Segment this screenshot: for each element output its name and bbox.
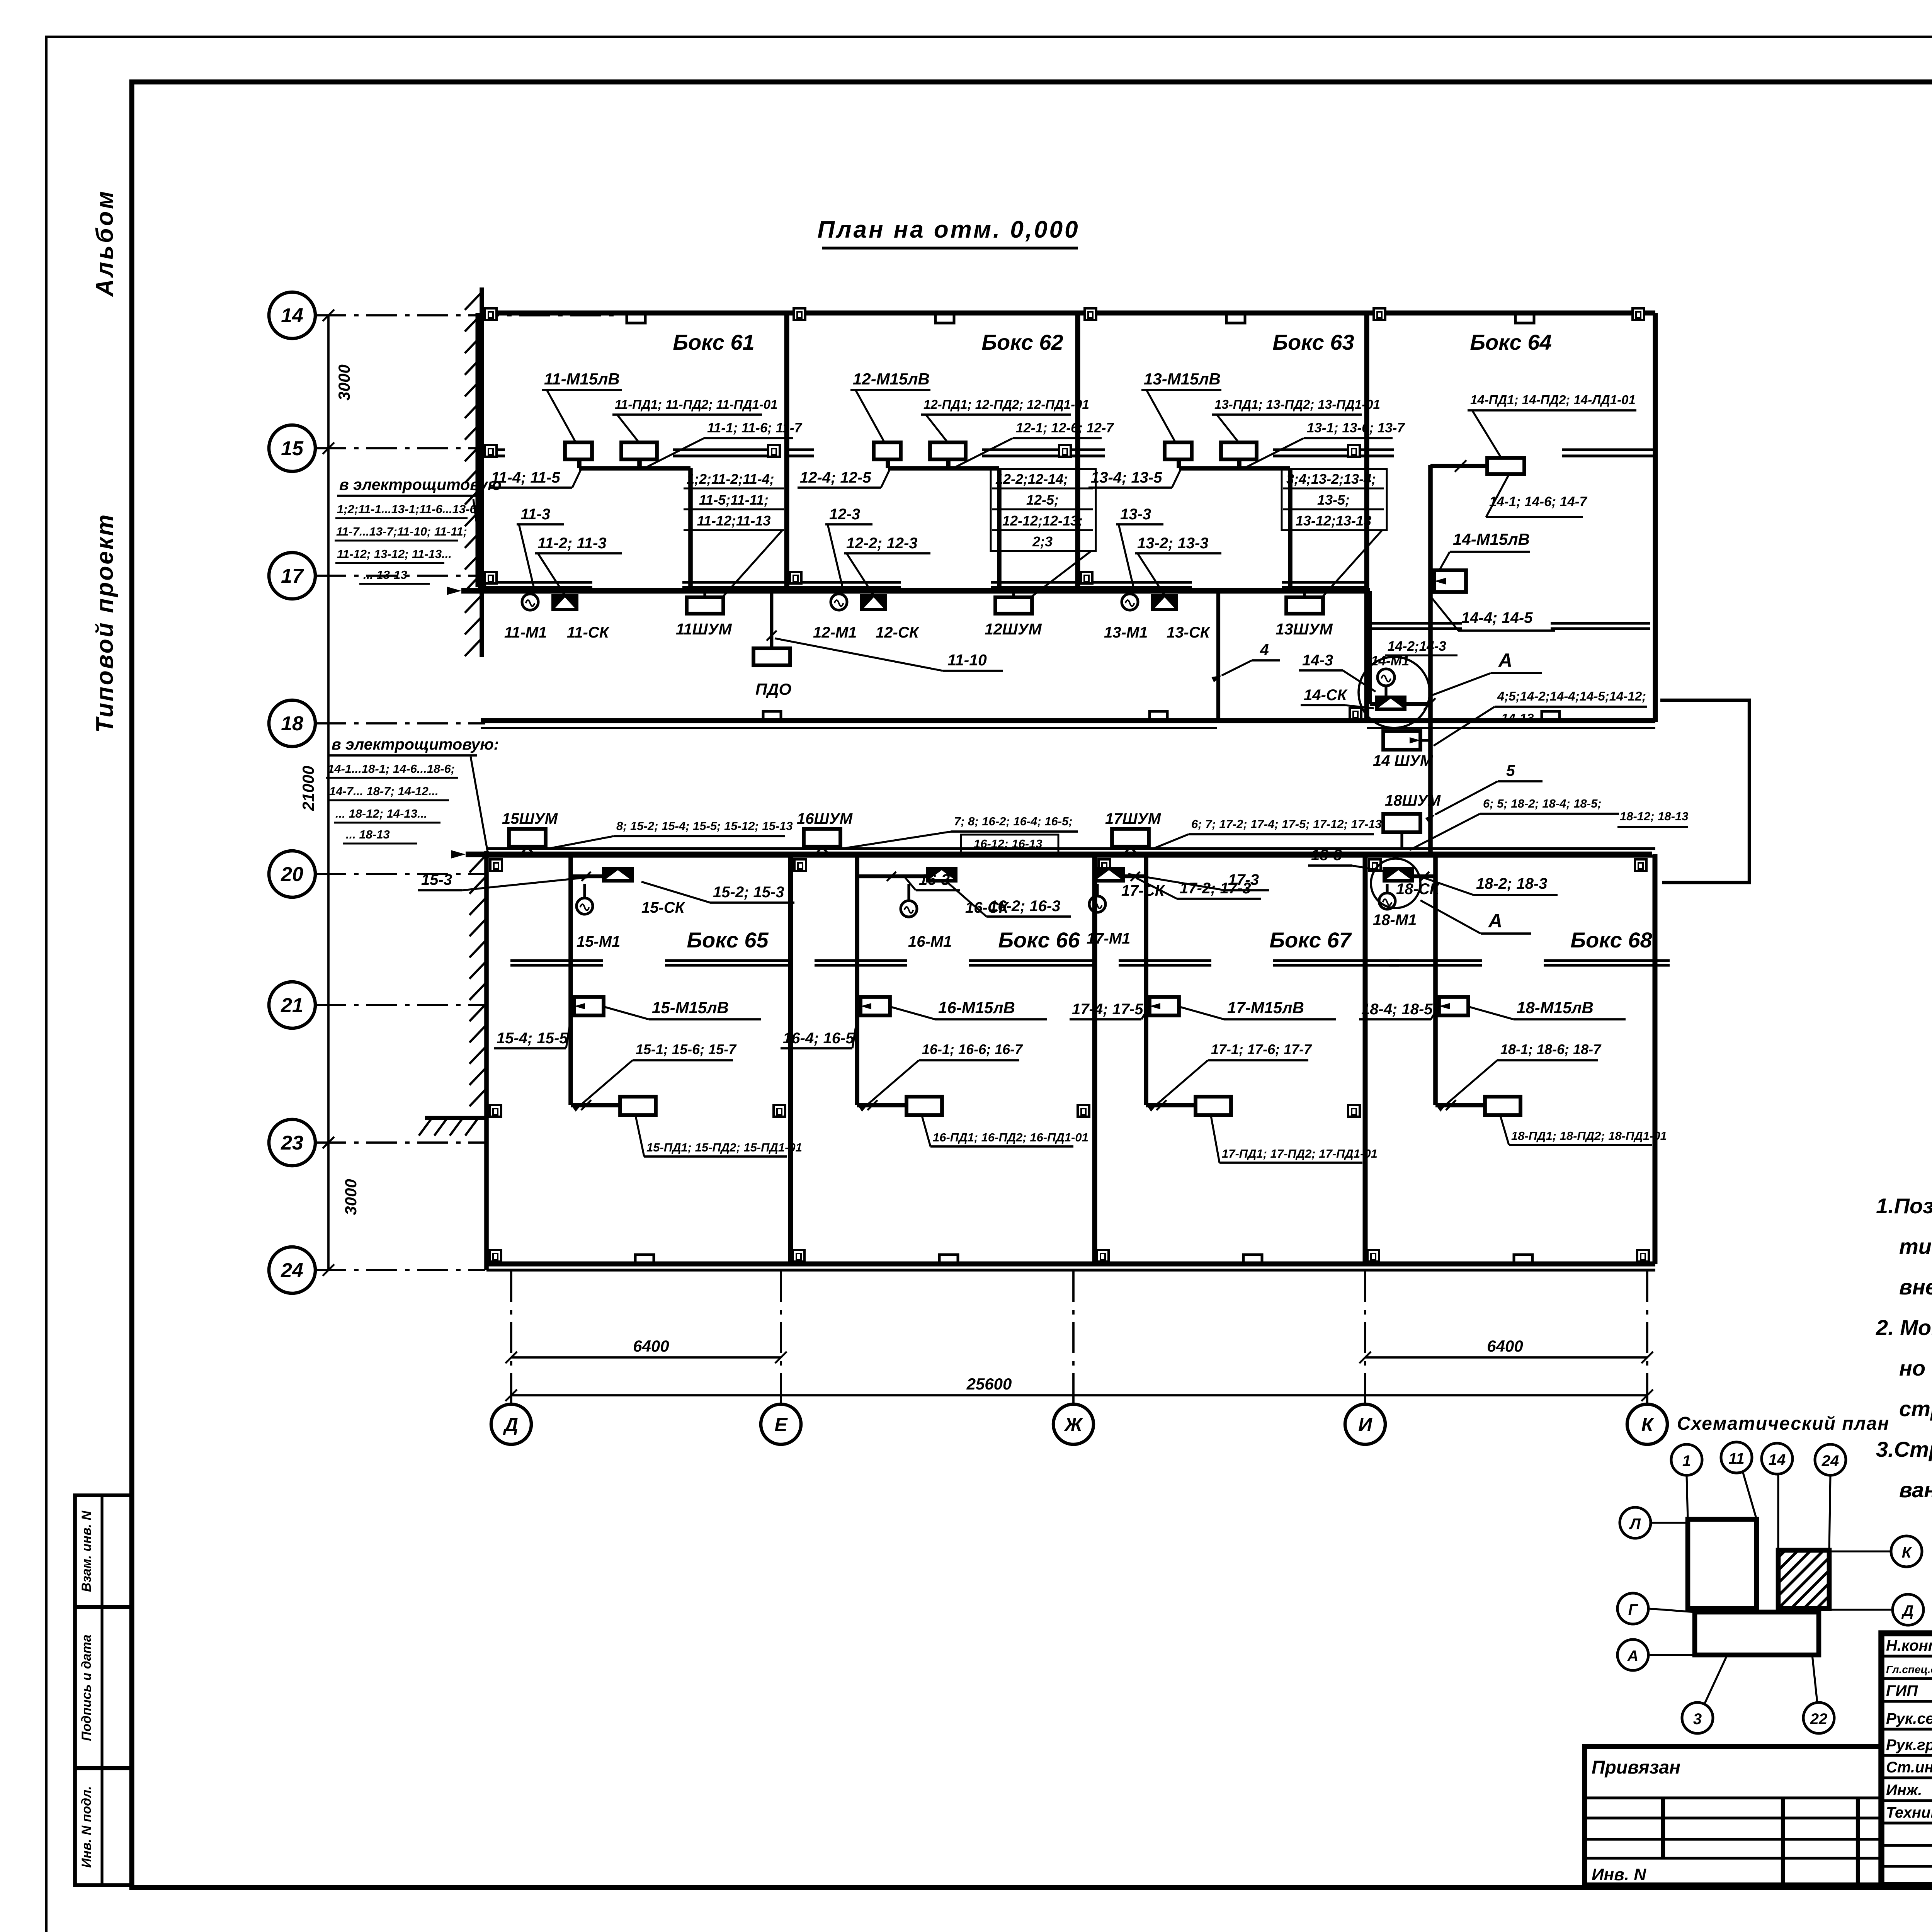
title block outer bbox=[1881, 1633, 1932, 1885]
axis 23 line bbox=[315, 1141, 485, 1144]
cable lower horizontal box 18 bbox=[1435, 1103, 1485, 1107]
schematic hatched block bbox=[1778, 1550, 1829, 1609]
cable 18 riser bbox=[1414, 874, 1435, 878]
cable lower horizontal box 16 bbox=[857, 1103, 906, 1107]
axis 20 line bbox=[315, 873, 485, 875]
svg-text:11-5;11-11;: 11-5;11-11; bbox=[699, 492, 769, 508]
noise sensor 17ШУМ rect bbox=[1112, 829, 1149, 847]
schematic axis circle Г bbox=[1617, 1593, 1648, 1624]
svg-text:12-М15лВ: 12-М15лВ bbox=[853, 370, 930, 388]
svg-text:13-5;: 13-5; bbox=[1317, 492, 1350, 508]
svg-text:12-5;: 12-5; bbox=[1026, 492, 1059, 508]
wall bump notches top wall bbox=[627, 313, 645, 323]
svg-text:17-М15лВ: 17-М15лВ bbox=[1227, 998, 1304, 1017]
axis 24 circle bbox=[269, 1247, 315, 1293]
axis 23 circle bbox=[269, 1119, 315, 1166]
svg-text:17-2; 17-3: 17-2; 17-3 bbox=[1180, 880, 1251, 897]
cable loop right of box64/68 bbox=[1660, 700, 1749, 883]
svg-text:Д: Д bbox=[503, 1414, 518, 1435]
damper 12-М15лВ rect bbox=[874, 442, 901, 459]
svg-text:22: 22 bbox=[1810, 1711, 1828, 1728]
svg-text:4;5;14-2;14-4;14-5;14-12;: 4;5;14-2;14-4;14-5;14-12; bbox=[1497, 689, 1646, 703]
svg-text:14-М15лВ: 14-М15лВ bbox=[1453, 530, 1530, 548]
schematic axis circle К (right) bbox=[1891, 1536, 1922, 1567]
svg-text:11-12;11-13: 11-12;11-13 bbox=[697, 513, 771, 529]
svg-text:Н.контр.: Н.контр. bbox=[1886, 1637, 1932, 1654]
svg-text:15: 15 bbox=[281, 437, 304, 460]
svg-text:23: 23 bbox=[281, 1132, 303, 1154]
svg-text:Бокс 63: Бокс 63 bbox=[1272, 330, 1354, 354]
switch 11-СК bbox=[551, 594, 578, 611]
cable from trunk to 14-СК bbox=[1368, 591, 1372, 704]
switch 14-СК bbox=[1375, 696, 1406, 711]
box64 side walls extended to axis 18 bbox=[1364, 587, 1369, 722]
wall x=4284 (upper row) bbox=[1653, 313, 1658, 587]
svg-text:6400: 6400 bbox=[1487, 1337, 1523, 1355]
svg-text:А: А bbox=[1498, 650, 1512, 671]
svg-text:К: К bbox=[1902, 1544, 1912, 1561]
svg-text:13ШУМ: 13ШУМ bbox=[1276, 620, 1333, 638]
svg-text:15-СК: 15-СК bbox=[641, 899, 685, 916]
svg-text:2;3: 2;3 bbox=[1032, 534, 1053, 549]
hatch wall foot piece bbox=[425, 1116, 488, 1120]
svg-text:1: 1 bbox=[1682, 1452, 1691, 1469]
svg-text:И: И bbox=[1358, 1414, 1372, 1435]
svg-text:18-12; 18-13: 18-12; 18-13 bbox=[1620, 810, 1689, 823]
svg-text:Инв. N подл.: Инв. N подл. bbox=[79, 1786, 94, 1868]
svg-text:11-М1: 11-М1 bbox=[504, 624, 547, 641]
svg-text:... 13-13: ... 13-13 bbox=[363, 568, 407, 582]
svg-text:14-СК: 14-СК bbox=[1304, 687, 1348, 704]
svg-text:16-4; 16-5: 16-4; 16-5 bbox=[783, 1030, 854, 1047]
schematic axis circle 11 bbox=[1721, 1442, 1752, 1473]
wall bump notches axis-18 wall bbox=[763, 711, 781, 721]
svg-text:Бокс 61: Бокс 61 bbox=[673, 330, 754, 354]
cable 17 riser bbox=[1125, 874, 1146, 878]
noise sensor 15ШУМ rect bbox=[509, 829, 546, 847]
cable in box 12 bbox=[886, 459, 890, 468]
svg-text:Ж: Ж bbox=[1063, 1414, 1083, 1435]
svg-text:13-12;13-13: 13-12;13-13 bbox=[1296, 513, 1371, 529]
svg-text:Подпись и дата: Подпись и дата bbox=[79, 1634, 94, 1741]
noise sensor 14ШУМ rect bbox=[1383, 731, 1420, 750]
svg-text:11-12; 13-12; 11-13...: 11-12; 13-12; 11-13... bbox=[337, 547, 452, 561]
detail circle around 18 unit bbox=[1371, 859, 1420, 908]
axis 24 line bbox=[315, 1269, 485, 1271]
svg-text:4: 4 bbox=[1260, 641, 1269, 658]
left margin stamp table bbox=[75, 1495, 132, 1885]
svg-text:14-1; 14-6; 14-7: 14-1; 14-6; 14-7 bbox=[1489, 494, 1587, 509]
damper 14-ПД rect bbox=[1487, 458, 1524, 474]
axis И circle bbox=[1345, 1404, 1385, 1444]
svg-text:К: К bbox=[1641, 1414, 1655, 1435]
svg-text:Бокс 67: Бокс 67 bbox=[1269, 928, 1352, 952]
axis И vertical line bbox=[1364, 1271, 1366, 1403]
svg-text:14-4; 14-5: 14-4; 14-5 bbox=[1461, 609, 1533, 626]
motor 12-М1 bbox=[831, 594, 847, 610]
axis 18 line bbox=[315, 722, 485, 724]
schematic axis circle 14 bbox=[1762, 1443, 1793, 1474]
svg-text:3.Строительная и технологиче: 3.Строительная и технологическая часть в… bbox=[1876, 1437, 1932, 1461]
svg-text:Рук.сект.: Рук.сект. bbox=[1886, 1710, 1932, 1727]
box64 riser cable bbox=[1428, 465, 1433, 854]
motor 14-М1 bbox=[1378, 669, 1395, 686]
svg-text:6400: 6400 bbox=[633, 1337, 669, 1355]
svg-text:Ст.инж.: Ст.инж. bbox=[1886, 1759, 1932, 1776]
svg-text:18-1; 18-6; 18-7: 18-1; 18-6; 18-7 bbox=[1500, 1041, 1602, 1057]
axis Ж circle bbox=[1053, 1404, 1094, 1444]
svg-text:в электрощитовую:: в электрощитовую: bbox=[332, 735, 499, 753]
axis К circle bbox=[1627, 1404, 1667, 1444]
noise sensor 11ШУМ rect bbox=[687, 597, 723, 614]
svg-text:14-3: 14-3 bbox=[1302, 652, 1333, 669]
svg-text:12ШУМ: 12ШУМ bbox=[985, 620, 1042, 638]
svg-text:А: А bbox=[1488, 910, 1502, 932]
damper 17-М15лВ rect bbox=[1150, 997, 1179, 1015]
svg-text:1;2;11-1...13-1;11-6...13-6;: 1;2;11-1...13-1;11-6...13-6; bbox=[337, 502, 480, 516]
svg-text:Гл.спец.отд.: Гл.спец.отд. bbox=[1886, 1663, 1932, 1675]
axis 18 circle bbox=[269, 700, 315, 747]
wall bump notches bottom wall bbox=[635, 1255, 654, 1264]
svg-text:14-ПД1; 14-ПД2; 14-ЛД1-01: 14-ПД1; 14-ПД2; 14-ЛД1-01 bbox=[1470, 393, 1636, 407]
damper 18-М15лВ rect bbox=[1439, 997, 1468, 1015]
svg-text:А: А bbox=[1627, 1648, 1639, 1665]
svg-text:8; 15-2; 15-4; 15-5; 15-12; 15: 8; 15-2; 15-4; 15-5; 15-12; 15-13 bbox=[616, 819, 793, 833]
switch 17-СК bbox=[1093, 867, 1125, 883]
svg-text:11-2; 11-3: 11-2; 11-3 bbox=[537, 535, 607, 552]
svg-text:7; 8; 16-2; 16-4; 16-5;: 7; 8; 16-2; 16-4; 16-5; bbox=[954, 815, 1073, 828]
bottom dim line 6400 (И-К) bbox=[1365, 1356, 1647, 1359]
svg-text:24: 24 bbox=[281, 1259, 303, 1282]
svg-text:14-2;14-3: 14-2;14-3 bbox=[1388, 639, 1446, 654]
svg-text:3000: 3000 bbox=[342, 1179, 360, 1215]
svg-text:11-СК: 11-СК bbox=[567, 624, 610, 641]
svg-text:... 18-12; 14-13...: ... 18-12; 14-13... bbox=[335, 807, 427, 820]
axis 21 circle bbox=[269, 982, 315, 1028]
damper 13-М15лВ rect bbox=[1165, 442, 1192, 459]
column jamb marks bbox=[485, 308, 497, 320]
svg-text:Бокс 65: Бокс 65 bbox=[687, 928, 769, 952]
svg-text:Д: Д bbox=[1901, 1602, 1914, 1619]
svg-text:15-М15лВ: 15-М15лВ bbox=[652, 998, 729, 1017]
motor 15-М1 bbox=[577, 898, 593, 914]
svg-text:Бокс 66: Бокс 66 bbox=[998, 928, 1080, 952]
bottom wall of lower boxes (axis 24) bbox=[486, 1262, 1655, 1267]
svg-text:18-ПД1; 18-ПД2; 18-ПД1-01: 18-ПД1; 18-ПД2; 18-ПД1-01 bbox=[1511, 1129, 1667, 1143]
top wall of boxes 61-64 (axis 14) bbox=[482, 311, 1655, 316]
axis Ж vertical line bbox=[1072, 1271, 1075, 1403]
svg-text:21000: 21000 bbox=[299, 766, 317, 811]
svg-text:11-М15лВ: 11-М15лВ bbox=[544, 370, 620, 388]
svg-text:15-ПД1; 15-ПД2; 15-ПД1-01: 15-ПД1; 15-ПД2; 15-ПД1-01 bbox=[646, 1141, 802, 1154]
bottom wall of upper boxes (axis 17) bbox=[478, 581, 592, 583]
svg-text:2. Монтаж приборов и средст: 2. Монтаж приборов и средств автоматизац… bbox=[1876, 1315, 1932, 1340]
svg-text:18-М1: 18-М1 bbox=[1373, 912, 1417, 929]
svg-text:14-1...18-1; 14-6...18-6;: 14-1...18-1; 14-6...18-6; bbox=[328, 762, 455, 776]
svg-text:... 18-13: ... 18-13 bbox=[346, 828, 390, 841]
svg-text:15ШУМ: 15ШУМ bbox=[502, 810, 558, 827]
svg-text:12-4; 12-5: 12-4; 12-5 bbox=[800, 469, 871, 486]
svg-text:6; 5; 18-2; 18-4; 18-5;: 6; 5; 18-2; 18-4; 18-5; bbox=[1483, 797, 1602, 810]
svg-text:Инж.: Инж. bbox=[1886, 1782, 1922, 1799]
svg-text:13-4; 13-5: 13-4; 13-5 bbox=[1091, 469, 1162, 486]
title block staff rows bbox=[1881, 1655, 1932, 1657]
svg-text:13-ПД1; 13-ПД2; 13-ПД1-01: 13-ПД1; 13-ПД2; 13-ПД1-01 bbox=[1214, 397, 1380, 412]
svg-text:17: 17 bbox=[281, 565, 304, 587]
wall x=3533 (lower row) bbox=[1363, 856, 1368, 1264]
schematic axis circle А bbox=[1617, 1639, 1648, 1670]
axis-15 partition stubs in upper boxes bbox=[478, 448, 505, 451]
svg-text:1;2;11-2;11-4;: 1;2;11-2;11-4; bbox=[687, 471, 774, 487]
vertical dimension line left bbox=[327, 315, 330, 448]
axis К vertical line bbox=[1646, 1271, 1648, 1403]
axis Д circle bbox=[491, 1404, 531, 1444]
svg-text:17-1; 17-6; 17-7: 17-1; 17-6; 17-7 bbox=[1211, 1041, 1312, 1057]
motor 18-М1 bbox=[1379, 893, 1395, 909]
svg-text:17-ПД1; 17-ПД2; 17-ПД1-01: 17-ПД1; 17-ПД2; 17-ПД1-01 bbox=[1222, 1147, 1378, 1160]
svg-text:13-1; 13-6; 13-7: 13-1; 13-6; 13-7 bbox=[1307, 420, 1405, 435]
svg-text:11-4; 11-5: 11-4; 11-5 bbox=[491, 469, 560, 486]
svg-text:12-ПД1; 12-ПД2; 12-ПД1-01: 12-ПД1; 12-ПД2; 12-ПД1-01 bbox=[923, 397, 1089, 412]
bottom dim line 6400 (Д-Е) bbox=[511, 1356, 781, 1359]
noise sensor 13ШУМ rect bbox=[1286, 597, 1323, 614]
svg-text:12-2; 12-3: 12-2; 12-3 bbox=[846, 535, 918, 552]
svg-text:3: 3 bbox=[1693, 1711, 1702, 1728]
wall x=3537 (upper row) bbox=[1364, 313, 1369, 587]
svg-text:20: 20 bbox=[281, 863, 303, 886]
axis 17 line bbox=[315, 575, 485, 577]
damper 15-М15лВ rect bbox=[574, 997, 604, 1015]
switch 18-СК bbox=[1383, 867, 1414, 883]
svg-text:15-1; 15-6; 15-7: 15-1; 15-6; 15-7 bbox=[636, 1041, 737, 1057]
schematic building block 1 bbox=[1688, 1519, 1757, 1609]
switch 12-СК bbox=[860, 594, 887, 611]
damper 13-ПД rect bbox=[1221, 442, 1257, 459]
svg-text:12-1; 12-6; 12-7: 12-1; 12-6; 12-7 bbox=[1016, 420, 1114, 435]
svg-text:17-4; 17-5: 17-4; 17-5 bbox=[1072, 1001, 1143, 1018]
svg-text:15-2; 15-3: 15-2; 15-3 bbox=[713, 884, 784, 901]
noise sensor 16ШУМ rect bbox=[804, 829, 840, 847]
svg-text:6; 7; 17-2; 17-4; 17-5; 17-12;: 6; 7; 17-2; 17-4; 17-5; 17-12; 17-13 bbox=[1191, 817, 1382, 831]
svg-text:16-2; 16-3: 16-2; 16-3 bbox=[989, 898, 1061, 915]
svg-text:Бокс 62: Бокс 62 bbox=[981, 330, 1063, 354]
svg-text:вании чертежей АР-5, ОВ-6.: вании чертежей АР-5, ОВ-6. bbox=[1899, 1478, 1932, 1502]
svg-text:3000: 3000 bbox=[335, 364, 353, 400]
axis 17 circle bbox=[269, 553, 315, 599]
schematic axis circle 24 bbox=[1815, 1444, 1846, 1475]
list box around 12 block bbox=[991, 469, 1096, 551]
noise sensor 18ШУМ rect bbox=[1383, 814, 1420, 832]
svg-text:24: 24 bbox=[1821, 1452, 1839, 1469]
svg-text:25600: 25600 bbox=[966, 1375, 1012, 1393]
svg-text:ПДО: ПДО bbox=[755, 680, 791, 698]
svg-text:11-3: 11-3 bbox=[520, 506, 550, 523]
axis 14 circle bbox=[269, 292, 315, 338]
svg-text:Привязан: Привязан bbox=[1592, 1757, 1680, 1778]
damper 18-ПД rect bbox=[1485, 1097, 1520, 1115]
svg-text:но строительным нормам и: но строительным нормам и правилам СНиП 3… bbox=[1899, 1356, 1932, 1380]
svg-text:Взам. инв. N: Взам. инв. N bbox=[79, 1510, 94, 1592]
svg-text:Рук.гр.: Рук.гр. bbox=[1886, 1736, 1932, 1753]
axis Е vertical line bbox=[780, 1271, 782, 1403]
svg-text:Е: Е bbox=[774, 1414, 788, 1435]
damper 15-ПД rect bbox=[620, 1097, 656, 1115]
schematic axis circle 22 bbox=[1803, 1702, 1834, 1733]
svg-text:16-ПД1; 16-ПД2; 16-ПД1-01: 16-ПД1; 16-ПД2; 16-ПД1-01 bbox=[933, 1131, 1088, 1144]
svg-text:Л: Л bbox=[1629, 1515, 1641, 1532]
cable lower horizontal box 17 bbox=[1146, 1103, 1196, 1107]
corridor wall x=3153 bbox=[1216, 592, 1220, 722]
svg-text:1.Позиции монтируемых прибор: 1.Позиции монтируемых приборов и аппарат… bbox=[1876, 1194, 1932, 1218]
svg-text:Схематический план: Схематический план bbox=[1677, 1413, 1889, 1434]
svg-text:14-13: 14-13 bbox=[1501, 711, 1534, 725]
svg-text:15-3: 15-3 bbox=[421, 871, 452, 888]
svg-text:15-4; 15-5: 15-4; 15-5 bbox=[497, 1030, 568, 1047]
svg-text:11-10: 11-10 bbox=[947, 651, 987, 669]
svg-text:18-М15лВ: 18-М15лВ bbox=[1517, 998, 1594, 1017]
svg-text:внешних проводок.: внешних проводок. bbox=[1899, 1275, 1932, 1299]
cable lower horizontal box 15 bbox=[571, 1103, 620, 1107]
box68 right wall bbox=[1653, 854, 1658, 1264]
schematic axis circle Д (right) bbox=[1893, 1594, 1923, 1625]
cable in box 13 bbox=[1177, 459, 1181, 468]
list box around 13 block bbox=[1282, 469, 1387, 530]
svg-text:Инв. N: Инв. N bbox=[1592, 1865, 1646, 1884]
svg-text:11-ПД1; 11-ПД2; 11-ПД1-01: 11-ПД1; 11-ПД2; 11-ПД1-01 bbox=[615, 397, 778, 412]
svg-text:12-М1: 12-М1 bbox=[813, 624, 857, 641]
cable 15 riser bbox=[571, 874, 602, 878]
svg-text:17ШУМ: 17ШУМ bbox=[1105, 810, 1162, 827]
svg-text:16-3: 16-3 bbox=[919, 871, 950, 888]
axis-18 corridor wall bbox=[481, 718, 1655, 723]
svg-text:11-1; 11-6; 11-7: 11-1; 11-6; 11-7 bbox=[707, 420, 803, 435]
svg-text:18ШУМ: 18ШУМ bbox=[1385, 792, 1441, 809]
svg-text:12-3: 12-3 bbox=[829, 506, 860, 523]
schematic axis circle 1 bbox=[1671, 1444, 1702, 1475]
bottom dim line 25600 bbox=[511, 1394, 1647, 1396]
axis Е circle bbox=[761, 1404, 801, 1444]
damper 16-ПД rect bbox=[906, 1097, 942, 1115]
motor 17-М1 bbox=[1089, 896, 1105, 912]
box64 cable horizontal to riser bbox=[1430, 464, 1487, 468]
wall x=2046 (lower row) bbox=[788, 856, 793, 1264]
left extension table (Привязан) bbox=[1585, 1747, 1881, 1885]
axis 15 line bbox=[315, 447, 485, 449]
svg-text:16-12; 16-13: 16-12; 16-13 bbox=[974, 837, 1043, 850]
noise sensor 12ШУМ rect bbox=[995, 597, 1032, 614]
svg-text:17-М1: 17-М1 bbox=[1087, 930, 1130, 947]
box64 internal partition y=1620 bbox=[1369, 622, 1462, 624]
svg-text:14 ШУМ: 14 ШУМ bbox=[1373, 752, 1434, 769]
motor 13-М1 bbox=[1122, 594, 1138, 610]
svg-text:Бокс 68: Бокс 68 bbox=[1570, 928, 1652, 952]
svg-text:14: 14 bbox=[1769, 1451, 1786, 1468]
damper 11-М15лВ rect bbox=[565, 442, 592, 459]
damper 11-ПД rect bbox=[621, 442, 657, 459]
svg-text:11: 11 bbox=[1728, 1450, 1745, 1467]
svg-text:17-СК: 17-СК bbox=[1121, 882, 1165, 899]
svg-text:Альбом: Альбом bbox=[92, 189, 118, 297]
svg-text:13-М1: 13-М1 bbox=[1104, 624, 1148, 641]
cable in box 11 bbox=[577, 459, 582, 468]
wall x=2789 (upper row) bbox=[1075, 313, 1080, 587]
ПДО unit bbox=[770, 591, 774, 648]
svg-text:5: 5 bbox=[1506, 762, 1515, 779]
damper 16-М15лВ rect bbox=[861, 997, 890, 1015]
svg-text:16-М15лВ: 16-М15лВ bbox=[938, 998, 1015, 1017]
svg-text:13-3: 13-3 bbox=[1120, 506, 1151, 523]
svg-text:16ШУМ: 16ШУМ bbox=[797, 810, 853, 827]
svg-text:18-3: 18-3 bbox=[1311, 847, 1342, 864]
motor 11-М1 bbox=[522, 594, 538, 610]
damper 17-ПД rect bbox=[1196, 1097, 1231, 1115]
svg-text:15-М1: 15-М1 bbox=[577, 933, 620, 950]
svg-text:Типовой проект: Типовой проект bbox=[92, 513, 118, 733]
svg-text:18: 18 bbox=[281, 713, 303, 735]
svg-text:типы кабелей и труб соотве: типы кабелей и труб соответствуют схеме … bbox=[1899, 1234, 1932, 1259]
svg-text:13-СК: 13-СК bbox=[1167, 624, 1211, 641]
switch 13-СК bbox=[1151, 594, 1178, 611]
svg-text:Г: Г bbox=[1628, 1601, 1639, 1618]
schematic axis circle 3 bbox=[1682, 1702, 1713, 1733]
svg-text:14-7... 18-7; 14-12...: 14-7... 18-7; 14-12... bbox=[329, 784, 439, 798]
damper 14-М15лВ rect bbox=[1434, 570, 1466, 592]
axis Д vertical line bbox=[510, 1271, 512, 1403]
schematic lower block bbox=[1695, 1612, 1819, 1655]
svg-text:14: 14 bbox=[281, 304, 303, 327]
svg-text:в электрощитовую: в электрощитовую bbox=[339, 476, 502, 493]
svg-text:строя СССР.: строя СССР. bbox=[1899, 1396, 1932, 1421]
svg-text:Бокс 64: Бокс 64 bbox=[1470, 330, 1551, 354]
axis 15 circle bbox=[269, 425, 315, 471]
switch 15-СК bbox=[602, 867, 634, 883]
wall x=1237 (upper row) bbox=[476, 313, 481, 587]
detail circle A around 14 unit bbox=[1359, 657, 1430, 728]
top wall of boxes 65-68 (axis 20) bbox=[486, 847, 1655, 850]
svg-text:12-2;12-14;: 12-2;12-14; bbox=[995, 471, 1068, 487]
svg-text:16-1; 16-6; 16-7: 16-1; 16-6; 16-7 bbox=[922, 1041, 1023, 1057]
lower exterior hatched wall (left of boxes 65-68) bbox=[484, 851, 489, 1270]
exterior hatched wall (upper, left of boxes 61-64) bbox=[480, 287, 484, 657]
svg-text:План на отм. 0,000: План на отм. 0,000 bbox=[817, 216, 1080, 243]
axis 20 circle bbox=[269, 851, 315, 897]
cable 16 riser bbox=[857, 874, 926, 878]
svg-text:13-М15лВ: 13-М15лВ bbox=[1144, 370, 1221, 388]
switch 16-СК bbox=[926, 867, 957, 883]
wall x=2833 (lower row) bbox=[1092, 856, 1097, 1264]
svg-text:18-4; 18-5: 18-4; 18-5 bbox=[1361, 1001, 1433, 1018]
svg-text:11ШУМ: 11ШУМ bbox=[676, 620, 732, 638]
svg-text:12-12;12-13;: 12-12;12-13; bbox=[1002, 513, 1083, 529]
axis 21 line bbox=[315, 1004, 485, 1006]
svg-text:11-7...13-7;11-10; 11-11;: 11-7...13-7;11-10; 11-11; bbox=[336, 525, 467, 538]
wall x=2036 (upper row) bbox=[784, 313, 789, 587]
svg-text:16-М1: 16-М1 bbox=[908, 933, 952, 950]
axis 14 line bbox=[315, 314, 618, 316]
lower trunk cable bbox=[466, 852, 1652, 857]
svg-text:13-2; 13-3: 13-2; 13-3 bbox=[1137, 535, 1209, 552]
upper trunk cable bbox=[461, 588, 1370, 594]
svg-text:21: 21 bbox=[281, 994, 303, 1017]
svg-text:18-2; 18-3: 18-2; 18-3 bbox=[1476, 875, 1548, 892]
damper 12-ПД rect bbox=[930, 442, 966, 459]
svg-text:ГИП: ГИП bbox=[1886, 1682, 1918, 1699]
schematic axis circle Л bbox=[1620, 1507, 1651, 1538]
svg-text:3;4;13-2;13-4;: 3;4;13-2;13-4; bbox=[1286, 471, 1376, 487]
motor 16-М1 bbox=[901, 901, 917, 917]
partition stubs y=2492 in lower boxes bbox=[510, 959, 603, 962]
svg-text:12-СК: 12-СК bbox=[876, 624, 920, 641]
